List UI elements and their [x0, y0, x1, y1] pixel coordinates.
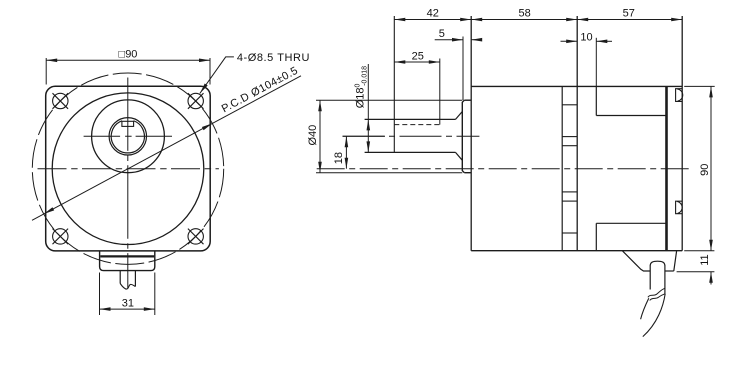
- vertical centerline: [127, 78, 129, 289]
- svg-text:90: 90: [699, 164, 711, 176]
- svg-text:P.C.D Ø104±0.5: P.C.D Ø104±0.5: [220, 65, 300, 116]
- svg-text:Ø180-0.018: Ø180-0.018: [355, 66, 369, 108]
- shaft top edge: [365, 118, 456, 120]
- rear clip bottom: [676, 201, 683, 214]
- dimension Ø40 line: [319, 100, 321, 173]
- dimension 18 line: [345, 136, 347, 168]
- svg-text:Ø40: Ø40: [307, 125, 319, 146]
- shaft tip face + 42/25 extension line: [393, 16, 395, 152]
- svg-text:5: 5: [439, 28, 445, 40]
- dimension 10 lines: [561, 40, 578, 42]
- dimension 31 arrows: [100, 307, 111, 311]
- motor shell inner top line: [596, 115, 666, 117]
- leader line 4-Ø8.5: [200, 57, 234, 94]
- corner hole top-right: [188, 93, 204, 109]
- keyway notch: [122, 121, 134, 126]
- svg-text:58: 58: [518, 8, 530, 20]
- gearbox front face + extension: [470, 16, 472, 251]
- top dimension line 42/58/57: [394, 19, 682, 21]
- dimension Ø40 extension lines: [316, 99, 462, 101]
- horizontal centerline (flange axis): [38, 168, 219, 170]
- arrows 42: [394, 18, 405, 22]
- P.C.D dashed circle Ø104: [32, 73, 223, 264]
- cable boss right slant: [674, 251, 677, 271]
- svg-text:57: 57: [623, 8, 635, 20]
- cable stub left edge: [119, 271, 121, 284]
- keyway hidden line: [394, 124, 440, 126]
- svg-text:4-Ø8.5 THRU: 4-Ø8.5 THRU: [237, 52, 310, 64]
- svg-text:42: 42: [427, 8, 439, 20]
- dimension Ø18 line: [367, 64, 369, 152]
- dimension 5 lines: [435, 39, 463, 41]
- svg-text:□90: □90: [119, 49, 138, 61]
- dimension 11 extension line: [677, 271, 715, 273]
- P.C.D arrow upper-right: [202, 123, 213, 130]
- dimension 90 line: [710, 86, 712, 250]
- gearbox rear plate line: [561, 86, 563, 250]
- shaft flare bottom: [456, 152, 463, 160]
- svg-text:31: 31: [122, 298, 134, 310]
- shaft inner circle Ø18 (gap at keyway): [111, 121, 144, 153]
- rear edge + 57 extension: [681, 16, 683, 251]
- svg-text:18: 18: [333, 152, 345, 164]
- dimension square-90 line: [46, 59, 210, 61]
- joint plate divisions: [562, 105, 577, 233]
- dimension 11 tail: [710, 272, 712, 285]
- 10 dim extension line: [595, 38, 597, 87]
- dimension 25 line: [394, 61, 440, 63]
- boss top edge: [464, 99, 471, 101]
- 5 extension line: [462, 37, 464, 101]
- arrows 57: [577, 18, 588, 22]
- svg-text:25: 25: [412, 50, 424, 62]
- dimension square-90 arrows: [46, 59, 57, 63]
- motor shell step verticals: [595, 86, 597, 115]
- cable boss left slant: [623, 251, 651, 271]
- boss circle Ø40: [92, 100, 165, 173]
- shaft horizontal centerline: [84, 135, 172, 137]
- arrows 58: [471, 18, 482, 22]
- cable stub break line: [120, 284, 135, 290]
- P.C.D diagonal dimension line: [32, 76, 301, 221]
- svg-text:10: 10: [580, 32, 592, 44]
- shaft bottom edge: [365, 151, 456, 153]
- grommet break wavy lines: [648, 288, 665, 297]
- side view shaft centerline: [343, 135, 480, 137]
- rear clip top: [676, 89, 683, 102]
- boss bottom edge: [464, 172, 471, 174]
- dimension square-90 extension lines: [45, 58, 47, 85]
- motor body circle: [52, 93, 204, 245]
- keyway end / 25 extension line: [439, 59, 441, 125]
- dimension 31 line: [100, 308, 155, 310]
- shaft outer circle: [109, 118, 146, 155]
- terminal box protrusion: [100, 251, 155, 271]
- svg-text:11: 11: [699, 254, 711, 265]
- dimension 90 extension lines: [684, 85, 715, 87]
- dimension 31 extension lines: [99, 273, 101, 316]
- cable stub right edge: [134, 271, 136, 287]
- motor shell inner bottom line: [596, 222, 666, 224]
- cable inner curve: [641, 298, 649, 319]
- gearbox/motor joint + extension: [576, 16, 578, 251]
- cable boss bottom right: [665, 270, 674, 272]
- shaft flare top: [456, 112, 463, 120]
- boss front face: [462, 100, 464, 173]
- leader arrowhead: [200, 84, 208, 94]
- body top edge: [471, 85, 682, 87]
- cable outer curve: [643, 294, 665, 337]
- protrusion thick bar: [100, 255, 154, 257]
- corner hole bottom-left: [53, 229, 69, 245]
- cable grommet: [650, 261, 665, 293]
- corner hole bottom-right: [188, 229, 204, 245]
- body bottom edge: [471, 250, 682, 252]
- rear cover joint (thick): [665, 86, 668, 250]
- P.C.D arrow lower-left: [44, 207, 55, 214]
- corner hole top-left: [53, 93, 69, 109]
- dimension 18 extension line: [343, 135, 386, 137]
- side view main centerline: [317, 168, 692, 170]
- flange square (90x90 with rounded corners): [46, 86, 211, 251]
